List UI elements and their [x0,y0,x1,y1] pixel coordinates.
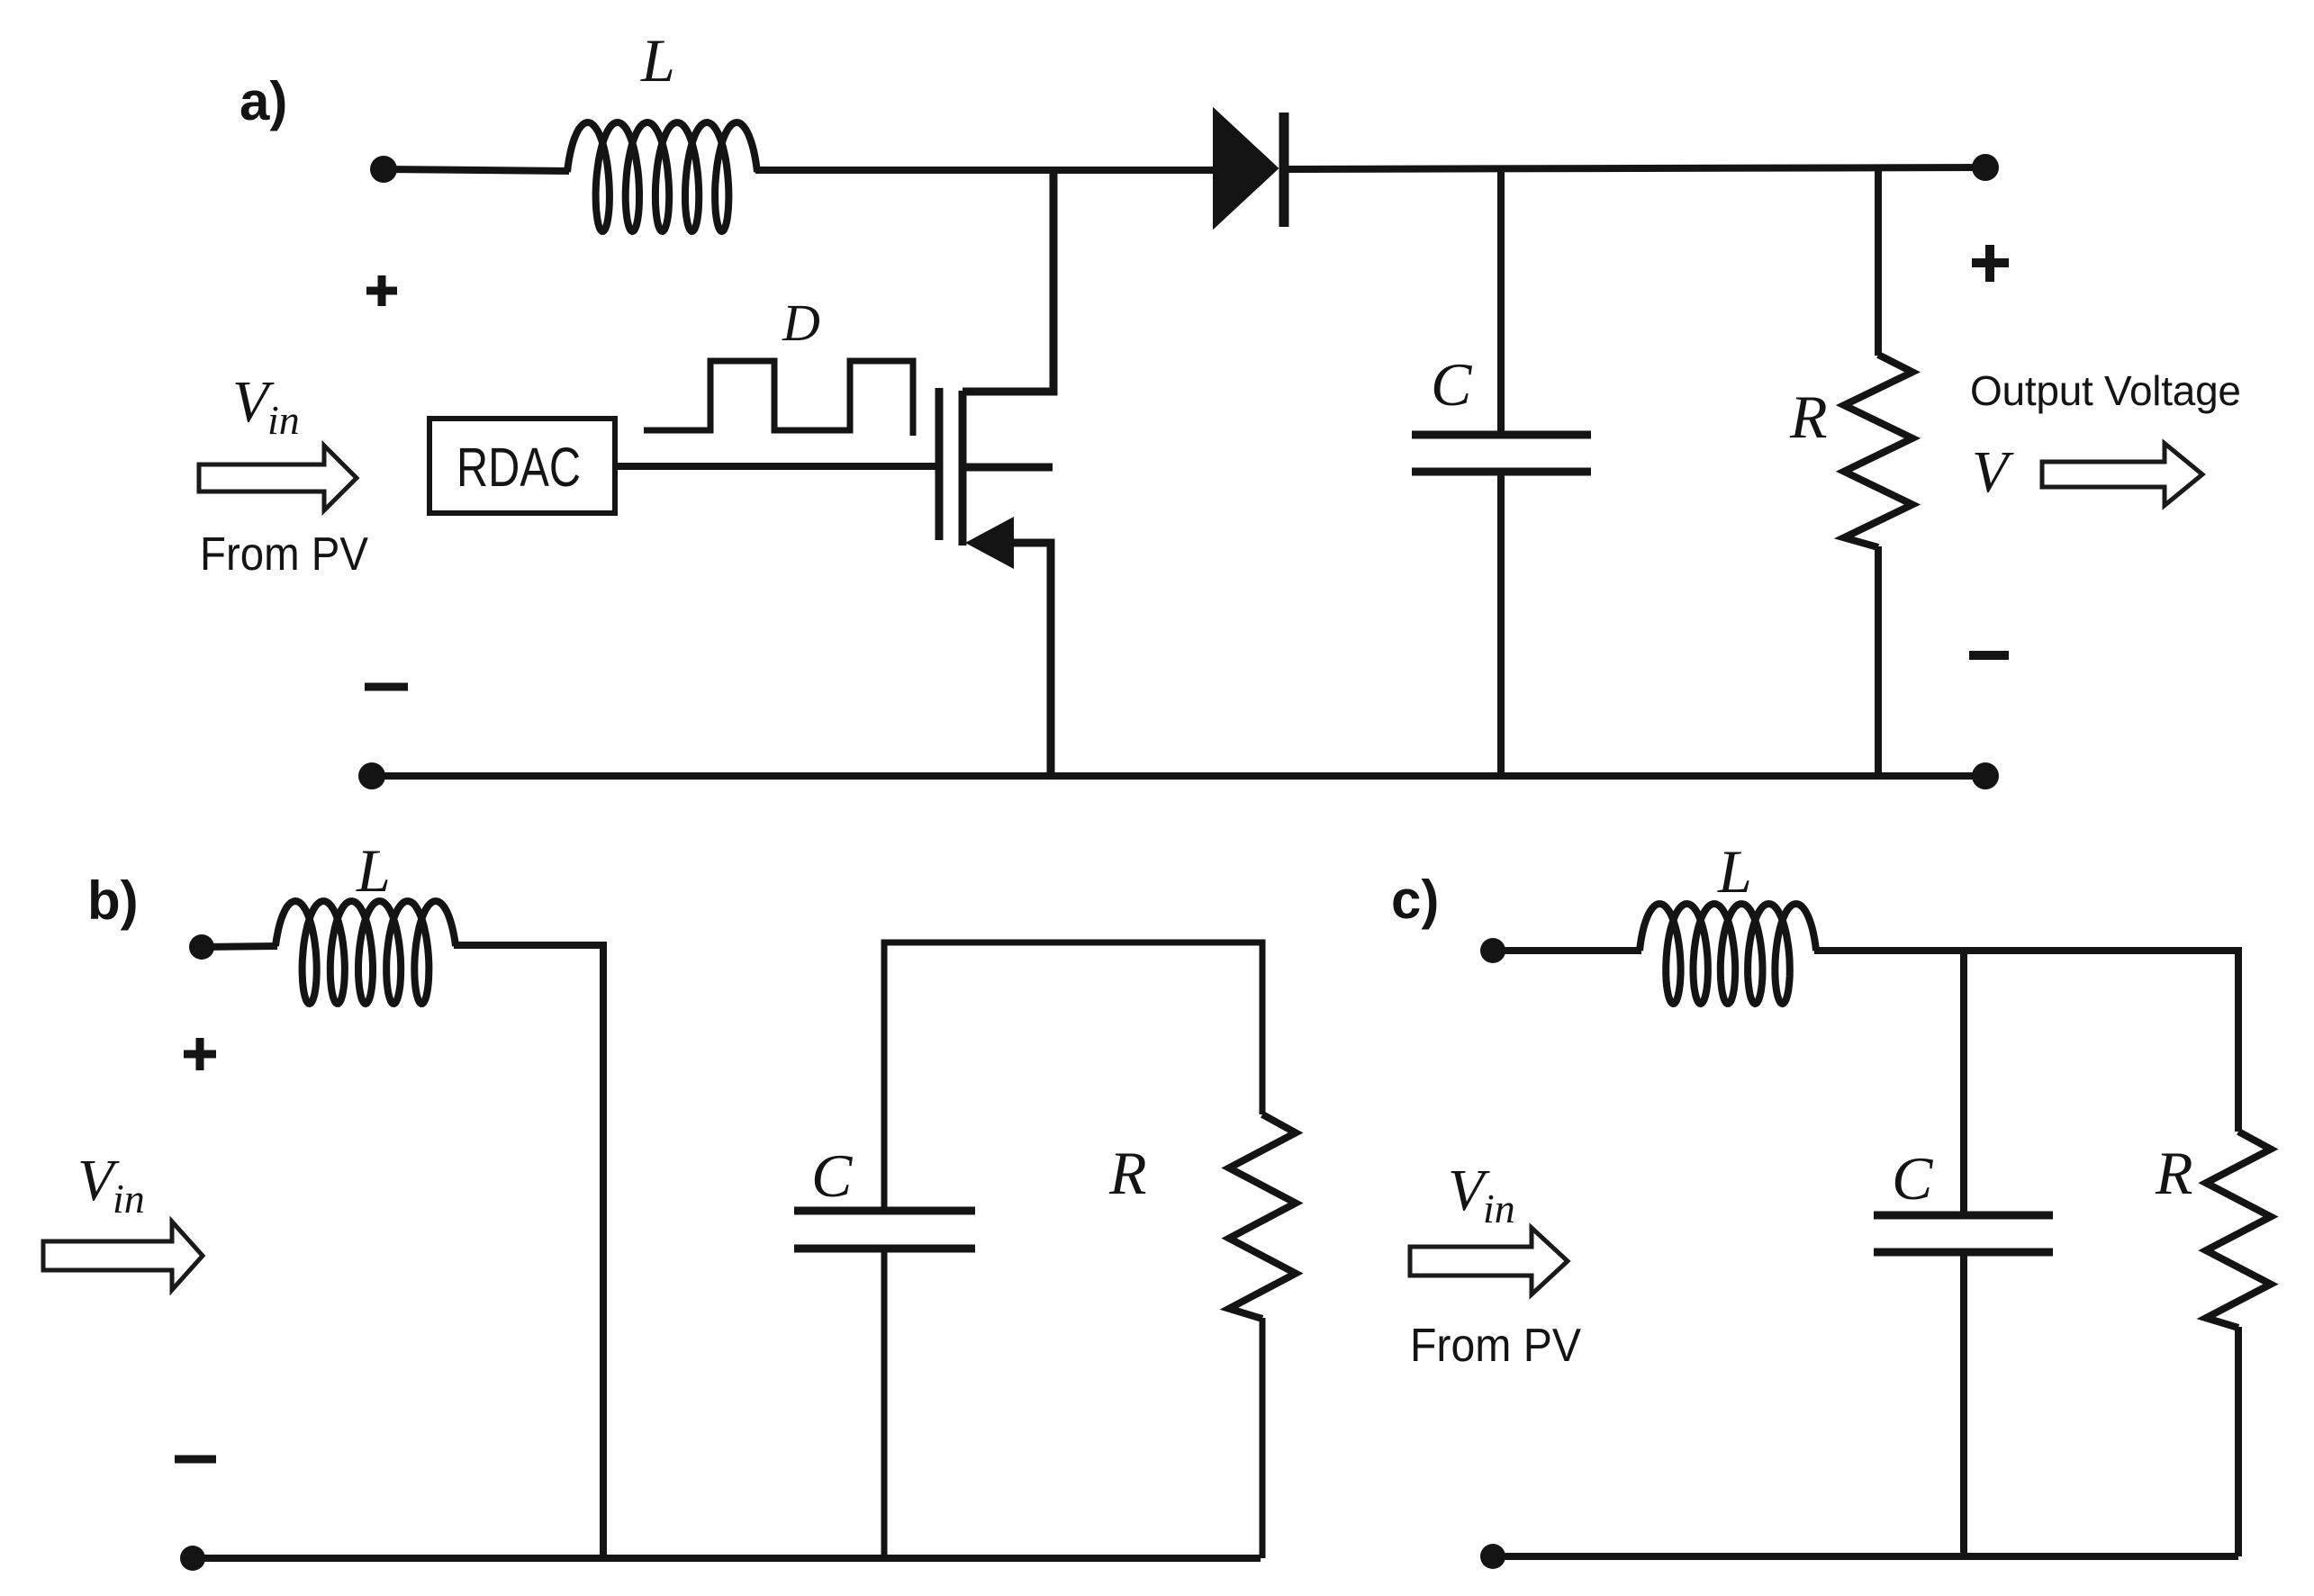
resistor R lead bottom (circuit a) [1875,546,1882,776]
svg-text:From PV: From PV [1410,1320,1581,1372]
output voltage block arrow [2042,444,2202,506]
wire top middle (inductor to diode) [755,167,1217,174]
RDAC box [429,419,615,513]
svg-text:L: L [640,26,675,95]
wire bottom rail (circuit a) [372,772,1985,780]
node A input + (top-left node dot) [370,156,397,183]
capacitor C top plate (circuit c) [1874,1212,2053,1220]
inductor L (circuit b) [276,901,456,1004]
resistor R zigzag (circuit a) [1844,355,1912,547]
wire input to inductor (circuit b) [202,946,277,947]
input voltage block arrow (circuit c) [1410,1228,1568,1294]
svg-text:Output Voltage: Output Voltage [1970,367,2241,414]
node input - dot (circuit b) [180,1546,205,1571]
wire bottom rail (circuit c) [1493,1553,2238,1560]
resistor R lead top (circuit a) [1875,167,1882,356]
MOSFET Q1 drain stub [963,169,1053,392]
node input + dot (circuit c) [1480,938,1505,963]
minus sign (circuit b) [175,1456,216,1464]
plus sign output (circuit a) [1972,245,2009,282]
svg-text:C: C [811,1141,853,1210]
svg-text:a): a) [240,71,287,131]
inductor L (circuit c) [1640,904,1816,1004]
duty-cycle waveform D [644,361,913,436]
resistor R zigzag (circuit c) [2206,1132,2271,1328]
resistor R lead bottom (circuit c) [2235,1327,2242,1556]
capacitor C lead bottom (circuit b) [881,1249,888,1558]
node input - (bottom-left node dot) [358,762,385,789]
node output - (bottom-right node dot) [1972,762,1999,789]
MOSFET Q1 source lead [1014,543,1051,776]
node output + (top-right node dot) [1972,154,1999,181]
capacitor C bottom plate (circuit b) [794,1245,975,1253]
diode D1 cathode bar [1279,113,1289,227]
svg-text:C: C [1431,350,1472,419]
capacitor C lead bottom (circuit c) [1960,1252,1967,1556]
svg-text:in: in [1483,1186,1515,1231]
svg-text:V: V [1972,439,2014,505]
capacitor C bottom plate (circuit a) [1412,468,1591,476]
capacitor C top plate (circuit b) [794,1207,975,1215]
wire inductor to switch branch (circuit b) [454,945,603,1558]
svg-text:c): c) [1391,870,1439,930]
wire top of CR loop (circuit b) [884,942,1262,1211]
wire top-left (input to inductor) [384,169,569,171]
MOSFET Q1 channel bar [959,391,967,546]
plus sign input (circuit a) [366,275,397,306]
minus sign output (circuit a) [1969,651,2009,660]
svg-text:R: R [2155,1139,2193,1207]
gate drive wire RDAC to MOSFET gate [615,463,939,470]
svg-text:R: R [1108,1139,1147,1207]
wire input to inductor (circuit c) [1493,947,1641,954]
wire bottom rail (circuit b) [193,1555,1261,1562]
svg-text:D: D [782,293,820,352]
svg-text:RDAC: RDAC [456,437,581,498]
node input - dot (circuit c) [1480,1544,1505,1569]
capacitor C lead top (circuit c) [1960,951,1967,1215]
svg-text:C: C [1892,1144,1933,1213]
svg-text:From PV: From PV [200,528,368,581]
svg-text:in: in [267,397,300,443]
svg-text:R: R [1789,383,1828,451]
svg-text:L: L [1717,837,1752,906]
input voltage block arrow (circuit b) [43,1222,203,1290]
wire top rail (circuit c) [1814,951,2238,1132]
MOSFET Q1 source arrow [965,517,1014,569]
wire top right (diode to output node) [1284,167,1985,169]
MOSFET Q1 gate bar [936,388,944,540]
inductor L (circuit a) [567,122,757,231]
capacitor C bottom plate (circuit c) [1874,1249,2053,1257]
input voltage block arrow (circuit a) [199,446,357,510]
capacitor C lead bottom (circuit a) [1497,475,1505,776]
diode D1 (triangle) [1214,109,1278,228]
resistor R lead bottom (circuit b) [1260,1318,1266,1558]
svg-text:b): b) [87,870,139,931]
resistor R zigzag (circuit b) [1229,1114,1296,1319]
svg-text:L: L [356,836,391,905]
minus sign input (circuit a) [365,683,408,691]
capacitor C top plate (circuit a) [1412,431,1591,439]
svg-text:in: in [113,1176,145,1222]
plus sign (circuit b) [184,1038,216,1070]
capacitor C lead top (circuit a) [1497,169,1505,431]
MOSFET Q1 body stub [963,464,1053,472]
node input + dot (circuit b) [189,934,214,960]
